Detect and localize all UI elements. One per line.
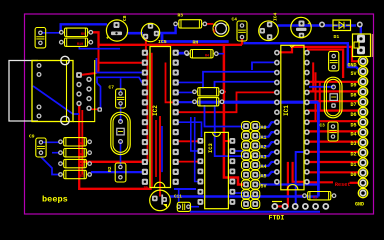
svg-text:D9: D9 — [350, 83, 356, 89]
svg-text:FTDI: FTDI — [269, 215, 285, 222]
svg-text:A5: A5 — [261, 174, 267, 180]
svg-text:Reset: Reset — [335, 182, 351, 188]
svg-text:D3: D3 — [350, 141, 356, 147]
svg-text:R10: R10 — [77, 43, 83, 47]
svg-text:4k7: 4k7 — [213, 27, 218, 33]
svg-text:A3: A3 — [261, 154, 267, 160]
svg-text:D7: D7 — [350, 102, 356, 108]
svg-text:IC4: IC4 — [273, 12, 279, 21]
svg-text:IC2: IC2 — [152, 105, 159, 116]
svg-text:R8: R8 — [80, 175, 84, 179]
svg-text:GND: GND — [355, 202, 364, 208]
svg-text:R6: R6 — [80, 153, 84, 157]
svg-text:D4: D4 — [350, 132, 356, 138]
svg-text:C7: C7 — [109, 85, 115, 91]
svg-text:R7: R7 — [80, 164, 84, 168]
svg-text:+: + — [106, 36, 109, 42]
svg-text:A0: A0 — [261, 125, 267, 131]
svg-text:D8: D8 — [350, 93, 356, 99]
svg-text:RH: RH — [193, 40, 199, 46]
svg-text:R9: R9 — [81, 33, 85, 37]
svg-text:R3: R3 — [178, 13, 184, 19]
svg-text:C4: C4 — [232, 17, 238, 23]
svg-text:D1: D1 — [334, 34, 340, 40]
svg-text:95: 95 — [144, 187, 149, 191]
svg-text:A2: A2 — [261, 145, 267, 151]
svg-text:R4: R4 — [205, 54, 209, 58]
svg-text:5V: 5V — [261, 183, 267, 189]
svg-text:IC5: IC5 — [158, 39, 167, 45]
svg-text:5V: 5V — [350, 71, 356, 77]
svg-text:C8: C8 — [122, 15, 128, 21]
svg-text:D1: D1 — [350, 162, 356, 168]
svg-text:beeps: beeps — [42, 195, 68, 205]
svg-text:R1: R1 — [313, 196, 317, 200]
svg-text:C3: C3 — [320, 124, 326, 129]
svg-text:R5: R5 — [80, 143, 84, 147]
svg-text:IC3: IC3 — [208, 143, 214, 153]
svg-text:IC1: IC1 — [283, 105, 290, 116]
svg-text:C9: C9 — [29, 134, 35, 140]
svg-text:A1: A1 — [261, 135, 267, 141]
svg-text:D5: D5 — [350, 123, 356, 129]
svg-text:D0: D0 — [350, 172, 356, 178]
svg-text:D6: D6 — [350, 112, 356, 118]
svg-text:A4: A4 — [261, 164, 267, 170]
svg-text:R2: R2 — [107, 166, 113, 172]
svg-text:+: + — [308, 21, 311, 27]
svg-text:C11: C11 — [174, 195, 182, 200]
svg-text:D2: D2 — [350, 152, 356, 158]
svg-text:GND: GND — [347, 63, 356, 69]
